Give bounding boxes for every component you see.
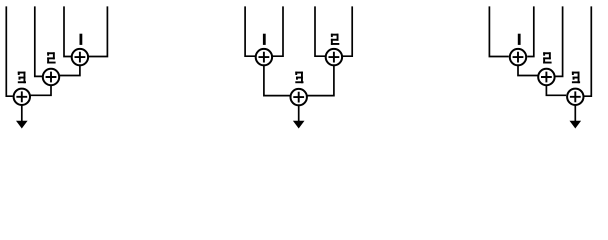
wire leaf 4 into node 1 right bbox=[89, 6, 108, 56]
wire leaf 4 into node R right bbox=[343, 6, 353, 56]
label 1 tree 2 bbox=[263, 34, 266, 45]
wire leaf 3 into node 2 right bbox=[555, 6, 562, 76]
label 3 tree 1 bbox=[18, 72, 26, 84]
label 1 tree 3 bbox=[518, 34, 521, 45]
wire leaf 4 into node 3 right bbox=[584, 6, 591, 96]
wire node R output into node B right bbox=[307, 64, 334, 95]
arrowhead result tree 3 bbox=[570, 121, 582, 129]
wire leaf 1 into node 3 left bbox=[6, 6, 13, 96]
sum node 3 of tree 3 bbox=[567, 89, 583, 105]
label 3 tree 3 bbox=[572, 72, 580, 84]
label 1 tree 1 bbox=[80, 34, 83, 45]
wire node 2 output into node 3 right bbox=[30, 84, 51, 95]
wire leaf 3 into node 1 left bbox=[64, 6, 71, 56]
wire node 1 output into node 2 right bbox=[60, 64, 80, 75]
sum node L (1) of tree 2 bbox=[256, 49, 272, 65]
wire leaf 3 into node R left bbox=[315, 6, 325, 56]
wire node 3 output shaft bbox=[21, 104, 23, 122]
label 2 tree 1 bbox=[47, 52, 55, 63]
label 3 tree 2 bbox=[295, 72, 303, 84]
arrowhead result tree 2 bbox=[293, 121, 305, 129]
label 2 tree 2 bbox=[331, 34, 339, 45]
sum node 3 of tree 1 bbox=[14, 89, 30, 105]
wire node L output into node B left bbox=[264, 64, 290, 95]
sum node 1 of tree 3 bbox=[510, 49, 526, 65]
sum node B (3) of tree 2 bbox=[291, 89, 307, 105]
label 2 tree 3 bbox=[543, 52, 551, 63]
wire node 2 output into node 3 left bbox=[546, 84, 566, 95]
op-amp-style sum node 1 of tree 1 bbox=[72, 49, 88, 65]
sum node 2 of tree 3 bbox=[538, 69, 554, 85]
wire leaf 2 into node 2 left bbox=[35, 6, 43, 76]
wire leaf 2 into node L right bbox=[273, 6, 284, 56]
sum node R (2) of tree 2 bbox=[326, 49, 342, 65]
wire node 3 output shaft bbox=[574, 104, 576, 122]
wire leaf 2 into node 1 right bbox=[527, 6, 534, 56]
wire leaf 1 into node 1 left bbox=[489, 6, 508, 56]
wire leaf 1 into node L left bbox=[245, 6, 255, 56]
wire node B output shaft bbox=[298, 104, 300, 122]
arrowhead result tree 1 bbox=[16, 121, 28, 129]
sum node 2 of tree 1 bbox=[43, 69, 59, 85]
wire node 1 output into node 2 left bbox=[518, 64, 538, 75]
